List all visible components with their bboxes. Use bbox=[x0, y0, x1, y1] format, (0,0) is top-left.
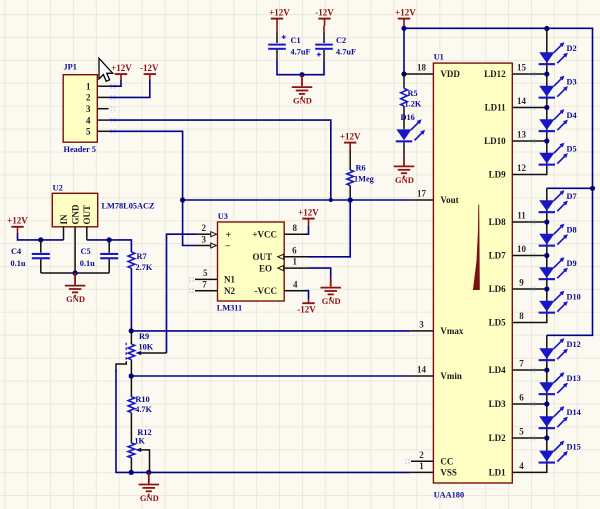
svg-text:15: 15 bbox=[517, 63, 527, 73]
svg-text:-12V: -12V bbox=[297, 305, 316, 315]
JP1 pin 1 bbox=[98, 85, 109, 87]
R9 wiper arrow bbox=[135, 351, 141, 355]
svg-text:+12V: +12V bbox=[298, 207, 319, 217]
resistor R5 bbox=[401, 88, 408, 106]
svg-text:13: 13 bbox=[517, 130, 527, 140]
capacitor C1 bbox=[268, 35, 286, 50]
LED D12 bbox=[539, 338, 568, 361]
U1 pin 1 VSS stub bbox=[410, 471, 433, 473]
svg-text:D16: D16 bbox=[401, 113, 415, 122]
junction C1-C2 ground node bbox=[299, 72, 304, 77]
resistor R6 leads bbox=[349, 150, 351, 199]
svg-text:-12V: -12V bbox=[140, 63, 159, 73]
svg-text:11: 11 bbox=[517, 211, 526, 221]
svg-text:LD11: LD11 bbox=[485, 103, 507, 113]
U1 pin 2 CC stub bbox=[411, 460, 433, 462]
svg-text:2: 2 bbox=[419, 450, 424, 460]
svg-text:7: 7 bbox=[519, 359, 524, 369]
svg-text:LD2: LD2 bbox=[489, 433, 507, 443]
capacitor C5 bottom lead bbox=[108, 259, 110, 273]
node chain top junction bbox=[544, 26, 549, 31]
IC U1 UAA180 body bbox=[433, 63, 512, 483]
wire +12V to U2 IN rail bbox=[18, 233, 64, 240]
node LED chain junction row 15 bbox=[544, 71, 549, 76]
wire U1 LD stub row 5 bbox=[512, 437, 547, 439]
svg-text:18: 18 bbox=[417, 63, 427, 73]
U1 pin 17 stub bbox=[410, 199, 433, 201]
capacitor C5 bbox=[100, 253, 118, 259]
wire +12V down to VDD bbox=[403, 28, 405, 74]
svg-text:0.1u: 0.1u bbox=[80, 259, 95, 268]
IC U2 LM78L05ACZ body bbox=[52, 193, 97, 227]
svg-text:R7: R7 bbox=[137, 252, 147, 261]
svg-text:Vmin: Vmin bbox=[440, 371, 462, 381]
svg-text:4.7uF: 4.7uF bbox=[336, 48, 356, 57]
svg-text:LD7: LD7 bbox=[489, 251, 507, 261]
svg-text:12: 12 bbox=[517, 163, 527, 173]
wire C1 bottom bbox=[276, 50, 278, 61]
wire U1 LD stub row 13 bbox=[512, 140, 547, 142]
svg-text:4: 4 bbox=[86, 115, 91, 125]
svg-text:GND: GND bbox=[395, 175, 414, 185]
svg-text:2: 2 bbox=[86, 93, 91, 103]
svg-text:1: 1 bbox=[292, 257, 297, 267]
svg-text:D5: D5 bbox=[567, 145, 577, 154]
svg-text:14: 14 bbox=[417, 365, 427, 375]
svg-text:C4: C4 bbox=[11, 247, 21, 256]
svg-text:LD3: LD3 bbox=[489, 399, 507, 409]
svg-text:Vout: Vout bbox=[440, 195, 458, 205]
ground at bottom bus bbox=[139, 472, 160, 494]
svg-text:10K: 10K bbox=[139, 343, 154, 352]
svg-text:LM78L05ACZ: LM78L05ACZ bbox=[102, 202, 155, 211]
node pin4 junction bbox=[329, 198, 333, 202]
svg-text:+12V: +12V bbox=[340, 131, 361, 141]
wire U1 LD stub row 11 bbox=[512, 221, 547, 223]
svg-text:+VCC: +VCC bbox=[252, 229, 277, 239]
wire R7 to Vmax net bbox=[130, 268, 132, 331]
svg-text:8: 8 bbox=[519, 311, 524, 321]
LED D15 bbox=[539, 441, 568, 464]
wire U1 LD stub row 9 bbox=[512, 288, 547, 290]
svg-text:Header 5: Header 5 bbox=[64, 145, 96, 154]
svg-text:5: 5 bbox=[519, 427, 524, 437]
wire U1 LD stub row 6 bbox=[512, 403, 547, 405]
wire U1 LD stub row 14 bbox=[512, 107, 547, 109]
wire U1 LD stub row 7 bbox=[512, 369, 547, 371]
resistor R12 bottom lead bbox=[130, 458, 132, 473]
svg-text:1Meg: 1Meg bbox=[354, 175, 375, 184]
capacitor C5 top lead bbox=[108, 240, 110, 253]
svg-text:–: – bbox=[225, 240, 231, 250]
LED D7 bbox=[539, 190, 568, 213]
mouse cursor bbox=[99, 58, 113, 81]
wire right bus branch to second LED group bbox=[547, 187, 593, 189]
svg-text:LD6: LD6 bbox=[489, 284, 507, 294]
node LED chain junction row 5 bbox=[544, 435, 549, 440]
svg-text:3: 3 bbox=[86, 104, 91, 114]
node LED chain junction row 10 bbox=[544, 253, 549, 258]
svg-text:4.7uF: 4.7uF bbox=[291, 48, 311, 57]
resistor R5 leads bbox=[403, 74, 405, 129]
wire +12V to C1 bbox=[276, 26, 278, 32]
wire LED chain group 3 bbox=[512, 335, 547, 472]
svg-text:R5: R5 bbox=[408, 89, 418, 98]
connector JP1 box bbox=[63, 75, 97, 143]
wire -12V to C2 bbox=[323, 26, 325, 32]
svg-text:JP1: JP1 bbox=[64, 63, 77, 72]
JP1 pin 3 bbox=[98, 108, 109, 110]
svg-text:D10: D10 bbox=[567, 293, 581, 302]
resistor R7 bbox=[128, 252, 135, 268]
ground at C1 C2 bbox=[292, 75, 313, 98]
svg-text:+12V: +12V bbox=[111, 63, 132, 73]
svg-text:D8: D8 bbox=[567, 226, 577, 235]
svg-text:D9: D9 bbox=[567, 259, 577, 268]
svg-text:3: 3 bbox=[202, 235, 207, 245]
svg-text:2: 2 bbox=[202, 223, 207, 233]
wire R9 left jog bbox=[116, 361, 126, 371]
svg-text:LD5: LD5 bbox=[489, 318, 507, 328]
wire LED chain group 1 bbox=[512, 29, 547, 175]
svg-text:U3: U3 bbox=[218, 212, 228, 221]
wire U1 LD stub row 15 bbox=[512, 73, 547, 75]
node LED chain junction row 13 bbox=[544, 138, 549, 143]
wire U3 OUT to Vout net bbox=[308, 200, 350, 257]
ground at U3 bbox=[320, 278, 341, 298]
resistor R6 bbox=[347, 170, 354, 186]
U1 pin 3 Vmax stub bbox=[410, 330, 433, 332]
node VDD junction bbox=[401, 71, 406, 76]
potentiometer R9 leads bbox=[130, 331, 132, 376]
svg-text:+12V: +12V bbox=[269, 7, 290, 17]
ground at U2 bbox=[65, 273, 86, 296]
ground at D16 bbox=[394, 157, 415, 177]
svg-text:N1: N1 bbox=[224, 275, 235, 285]
LED D3 bbox=[539, 76, 568, 99]
svg-text:D2: D2 bbox=[567, 44, 577, 53]
wire U3 EO to ground bbox=[308, 268, 331, 278]
node C5 top junction bbox=[107, 237, 112, 242]
LED D10 bbox=[539, 291, 568, 314]
svg-text:6: 6 bbox=[292, 245, 297, 255]
wire U3 plus input to R9 wiper bbox=[167, 234, 197, 353]
svg-text:GND: GND bbox=[322, 296, 341, 306]
wire R12 wiper to ground bus bbox=[141, 450, 150, 473]
svg-text:C2: C2 bbox=[336, 36, 346, 45]
wire left branch down to ground bus bbox=[116, 370, 410, 472]
node R9 top junction bbox=[129, 328, 134, 333]
node ground bus junction bbox=[146, 470, 151, 475]
svg-text:R9: R9 bbox=[139, 332, 149, 341]
JP1 pin 4 bbox=[98, 119, 109, 121]
U1 pin 14 Vmin stub bbox=[410, 375, 433, 377]
svg-text:14: 14 bbox=[517, 96, 527, 106]
svg-text:OUT: OUT bbox=[252, 252, 272, 262]
LED D5 bbox=[539, 143, 568, 166]
capacitor C4 top lead bbox=[40, 240, 42, 253]
JP1 pin 5 bbox=[98, 130, 109, 132]
svg-text:2.7K: 2.7K bbox=[136, 263, 153, 272]
wire JP1 pin2 to -12V bbox=[109, 80, 150, 97]
R12 wiper arrow bbox=[135, 448, 141, 452]
wire U2 OUT rail to R7 bbox=[87, 240, 132, 252]
node R12 bottom junction bbox=[129, 470, 134, 475]
JP1 pin 2 bbox=[98, 96, 109, 98]
LED D9 bbox=[539, 257, 568, 280]
svg-text:+12V: +12V bbox=[7, 216, 28, 226]
node Vout-JP1 junction bbox=[180, 197, 185, 202]
wire Vout net horizontal bbox=[183, 199, 411, 201]
svg-text:VSS: VSS bbox=[440, 468, 457, 478]
wire Vmin net horizontal bbox=[131, 375, 410, 377]
svg-text:4: 4 bbox=[519, 461, 524, 471]
svg-text:C1: C1 bbox=[291, 36, 301, 45]
resistor R12 bbox=[128, 443, 135, 458]
wire U3 -VCC to -12V bbox=[305, 291, 309, 299]
wire C2 bottom bbox=[323, 50, 325, 61]
capacitor C4 bottom lead bbox=[40, 259, 42, 273]
svg-text:-VCC: -VCC bbox=[255, 286, 278, 296]
svg-text:IN: IN bbox=[59, 214, 69, 225]
node U2 GND junction bbox=[73, 270, 78, 275]
svg-text:LD8: LD8 bbox=[489, 217, 507, 227]
comparator U3 LM311 body bbox=[218, 222, 285, 301]
svg-text:Vmax: Vmax bbox=[440, 326, 463, 336]
svg-text:1: 1 bbox=[86, 81, 91, 91]
svg-text:-12V: -12V bbox=[315, 7, 334, 17]
resistor R10 leads bbox=[130, 376, 132, 443]
wire LED chain group 2 bbox=[512, 188, 547, 322]
node LED chain junction row 9 bbox=[544, 286, 549, 291]
U1 bar-graph needle graphic bbox=[473, 205, 480, 291]
svg-text:LD1: LD1 bbox=[489, 468, 507, 478]
svg-text:5: 5 bbox=[86, 127, 91, 137]
svg-text:10: 10 bbox=[517, 244, 527, 254]
node LED chain junction row 11 bbox=[544, 219, 549, 224]
LED D2 bbox=[539, 42, 568, 65]
svg-text:+12V: +12V bbox=[395, 7, 416, 17]
node Vmin junction bbox=[129, 373, 134, 378]
svg-text:R6: R6 bbox=[356, 164, 366, 173]
svg-text:7: 7 bbox=[202, 279, 207, 289]
svg-text:UAA180: UAA180 bbox=[434, 491, 464, 500]
svg-text:1.2K: 1.2K bbox=[405, 100, 422, 109]
svg-text:OUT: OUT bbox=[82, 205, 92, 225]
svg-text:4: 4 bbox=[293, 279, 298, 289]
svg-text:0.1u: 0.1u bbox=[11, 259, 26, 268]
svg-text:R10: R10 bbox=[135, 395, 149, 404]
LED D14 bbox=[539, 406, 568, 429]
svg-text:D4: D4 bbox=[567, 111, 577, 120]
svg-text:5: 5 bbox=[203, 268, 208, 278]
svg-text:1: 1 bbox=[419, 461, 424, 471]
LED D8 bbox=[539, 224, 568, 247]
capacitor C2 bbox=[315, 44, 333, 57]
svg-text:CC: CC bbox=[440, 457, 453, 467]
svg-text:4.7K: 4.7K bbox=[135, 405, 152, 414]
svg-text:U1: U1 bbox=[434, 53, 444, 62]
node R6-out junction bbox=[348, 197, 353, 202]
node LED chain junction row 14 bbox=[544, 105, 549, 110]
wire Vmax net horizontal bbox=[131, 330, 410, 332]
wire U1 LD stub row 10 bbox=[512, 255, 547, 257]
svg-text:8: 8 bbox=[293, 223, 298, 233]
U2 pin stubs bbox=[64, 227, 87, 273]
svg-text:D3: D3 bbox=[567, 78, 577, 87]
node right bus junction bbox=[590, 186, 595, 191]
LED D13 bbox=[539, 372, 568, 395]
svg-text:3: 3 bbox=[419, 320, 424, 330]
svg-text:N2: N2 bbox=[224, 286, 235, 296]
wire +12V rail to LED chain and right bus bbox=[404, 28, 593, 335]
svg-text:U2: U2 bbox=[53, 184, 63, 193]
svg-text:9: 9 bbox=[519, 278, 524, 288]
potentiometer R9 bbox=[128, 344, 135, 360]
svg-text:D15: D15 bbox=[567, 442, 581, 451]
LED D16 bbox=[396, 119, 425, 142]
capacitor C4 bbox=[32, 253, 50, 259]
svg-text:EO: EO bbox=[259, 263, 272, 273]
wire JP1 pin1 to +12V bbox=[109, 80, 121, 86]
svg-text:LD4: LD4 bbox=[489, 365, 507, 375]
svg-text:D13: D13 bbox=[567, 374, 581, 383]
svg-text:D7: D7 bbox=[567, 192, 577, 201]
svg-text:D14: D14 bbox=[567, 408, 581, 417]
wire JP1 pin4 to U1 Vout net bbox=[109, 120, 331, 200]
wire JP1 pin5 to comparator inverting input bbox=[109, 131, 196, 245]
svg-text:LD9: LD9 bbox=[489, 170, 507, 180]
U1 pin 18 stub bbox=[404, 73, 433, 75]
svg-text:VDD: VDD bbox=[440, 69, 460, 79]
R9 dashed adjust mark bbox=[125, 343, 127, 361]
resistor R10 bbox=[128, 397, 135, 413]
svg-text:D12: D12 bbox=[567, 340, 581, 349]
svg-text:17: 17 bbox=[417, 189, 427, 199]
node LED chain junction row 6 bbox=[544, 401, 549, 406]
wire U2 ground bus bbox=[41, 272, 109, 274]
svg-text:GND: GND bbox=[66, 294, 85, 304]
svg-text:GND: GND bbox=[293, 96, 312, 106]
svg-text:6: 6 bbox=[519, 393, 524, 403]
svg-text:LD10: LD10 bbox=[484, 136, 506, 146]
svg-text:LD12: LD12 bbox=[484, 69, 506, 79]
node +12V top junction bbox=[401, 26, 406, 31]
svg-text:GND: GND bbox=[140, 493, 159, 503]
LED D4 bbox=[539, 109, 568, 132]
node C4 junction bbox=[38, 237, 43, 242]
node LED chain junction row 7 bbox=[544, 367, 549, 372]
svg-text:GND: GND bbox=[70, 204, 80, 225]
wire U3 +VCC to +12V bbox=[305, 226, 309, 234]
svg-text:1K: 1K bbox=[134, 437, 145, 446]
svg-text:LM311: LM311 bbox=[217, 304, 242, 313]
svg-text:C5: C5 bbox=[81, 247, 91, 256]
wire D16 to ground bbox=[403, 143, 405, 158]
